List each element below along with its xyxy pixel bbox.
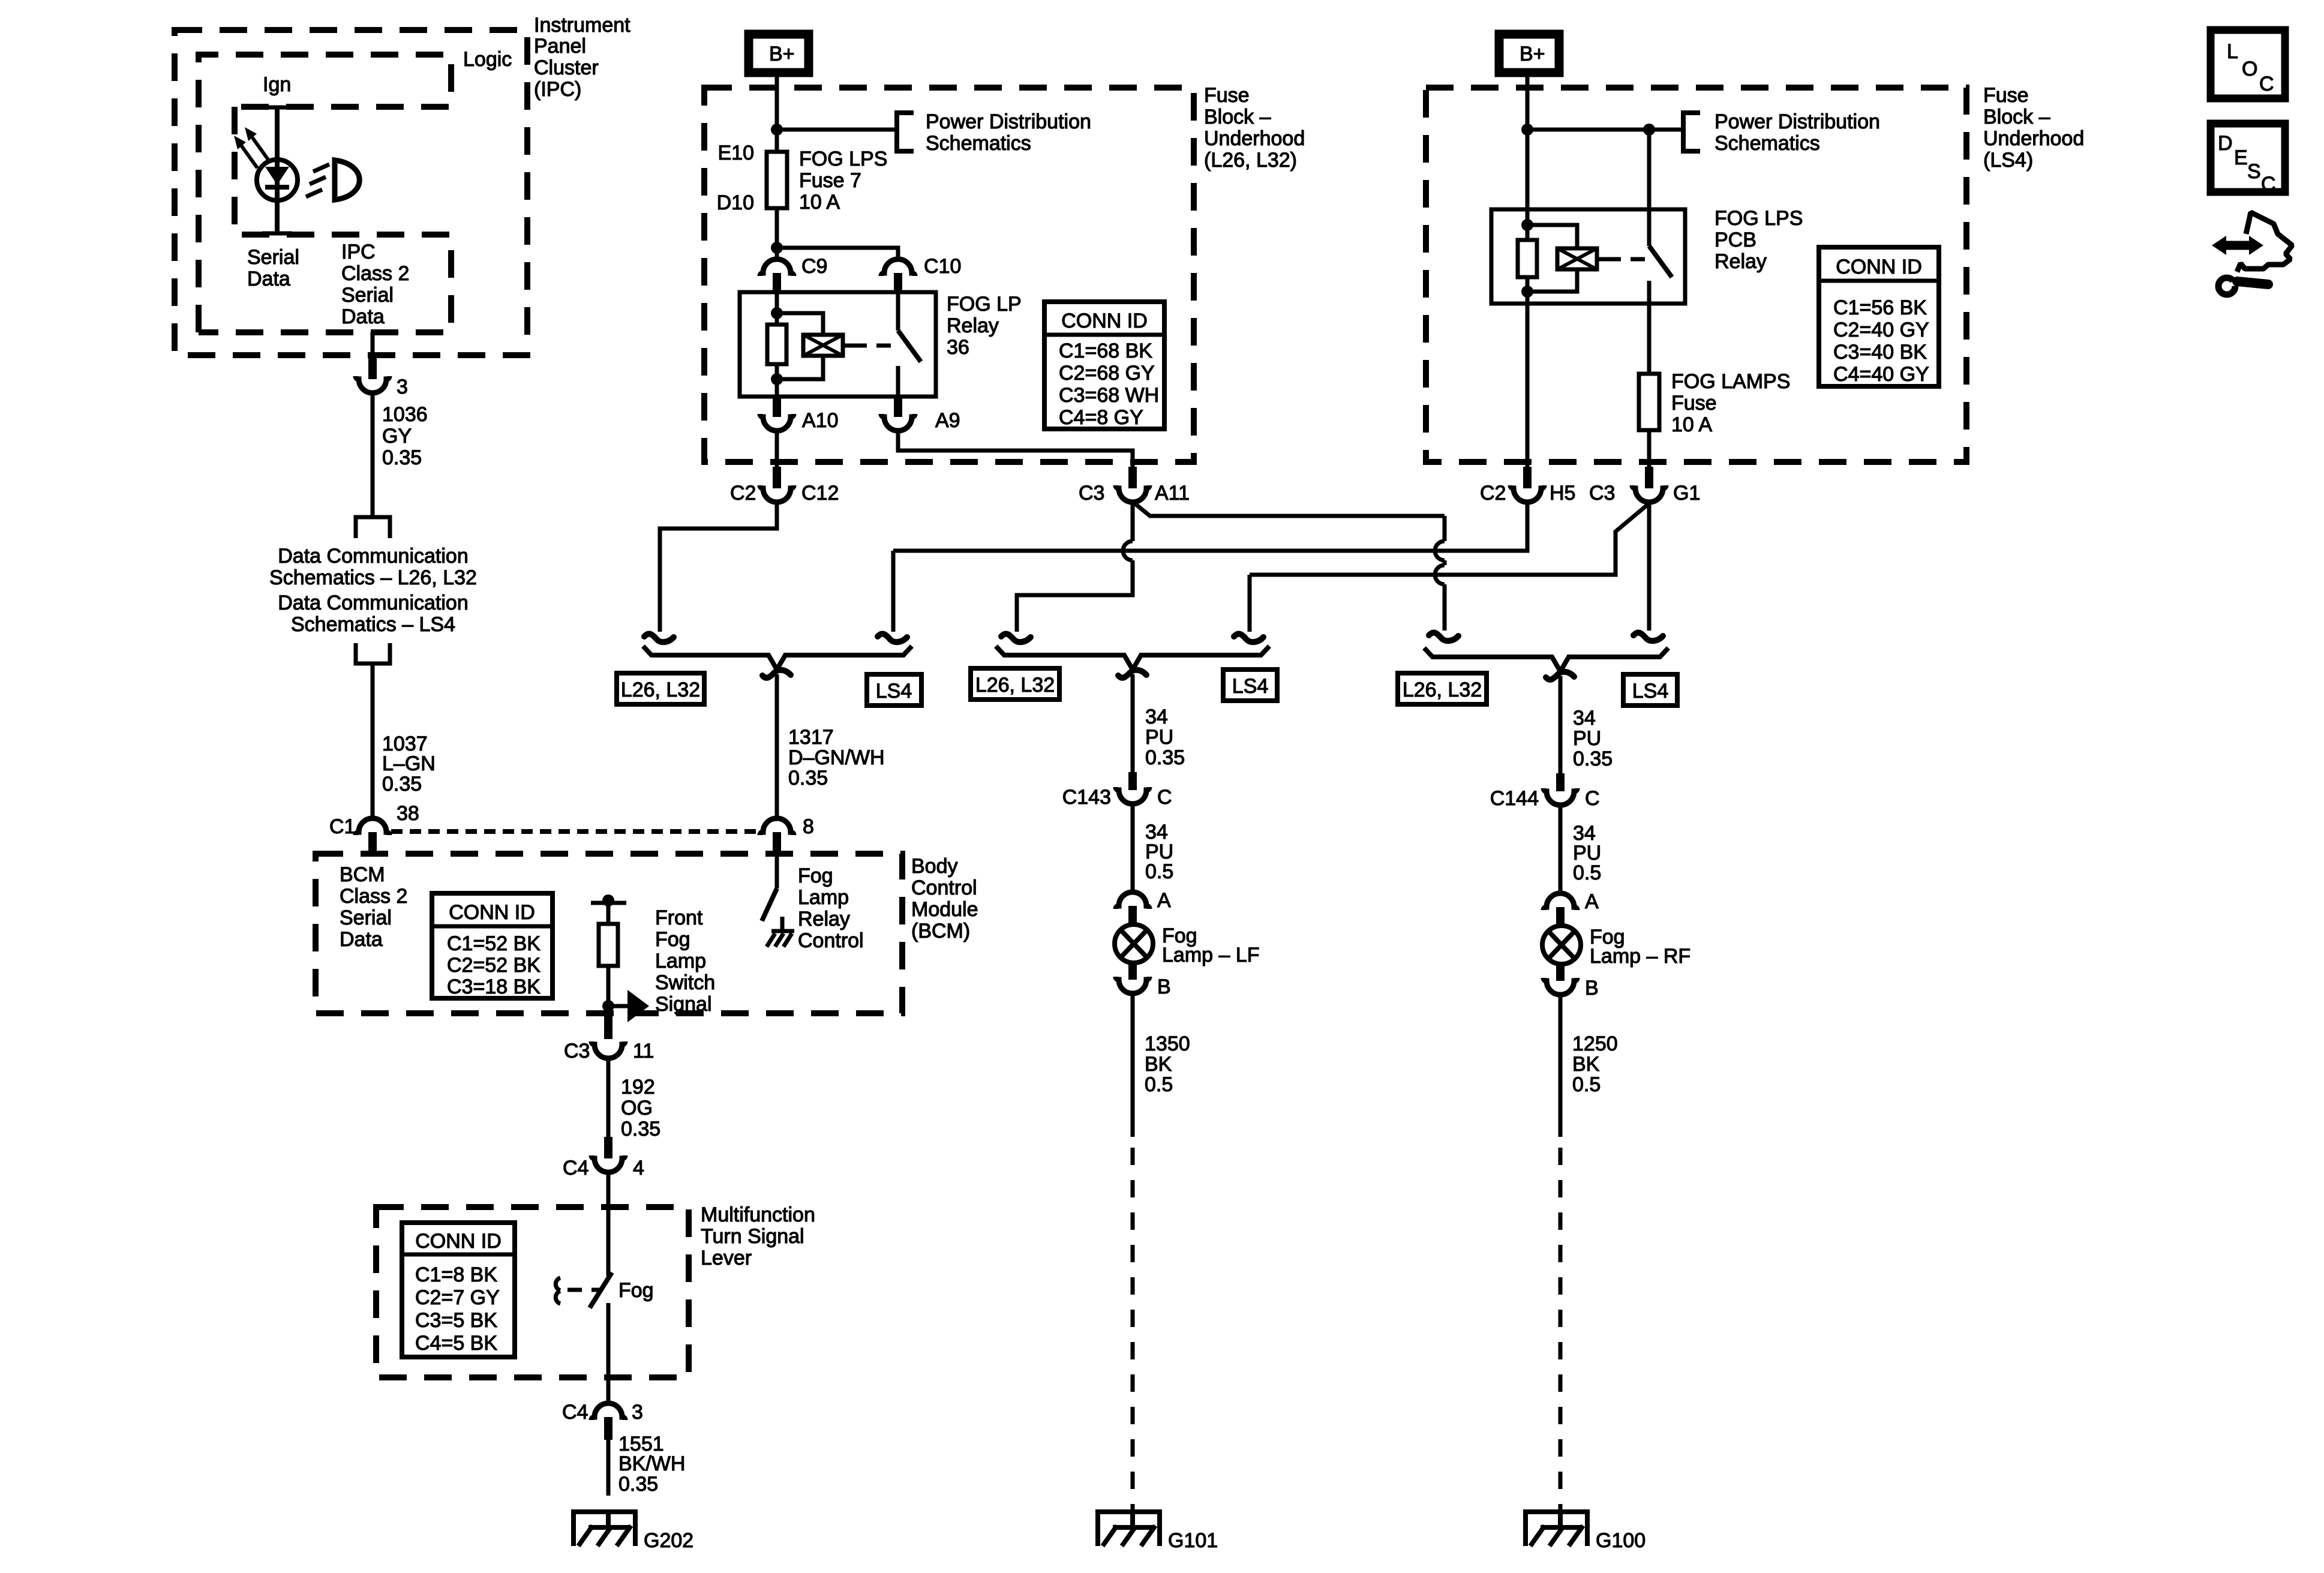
svg-text:G202: G202 — [644, 1529, 693, 1552]
svg-text:C9: C9 — [801, 255, 827, 278]
relay switch wire from power — [1647, 130, 1652, 246]
relay coil — [1557, 248, 1597, 269]
svg-text:GY: GY — [382, 425, 412, 448]
wire terminal at bottom of LED box — [262, 232, 292, 236]
svg-text:C2=52 BK: C2=52 BK — [447, 954, 541, 977]
svg-text:Underhood: Underhood — [1983, 127, 2084, 150]
svg-text:C12: C12 — [801, 482, 839, 505]
svg-text:BCM: BCM — [340, 863, 385, 886]
svg-text:(L26, L32): (L26, L32) — [1204, 149, 1297, 172]
tap wire to power distribution — [777, 128, 897, 132]
svg-text:Fog: Fog — [655, 928, 690, 951]
relay switch blade — [898, 331, 921, 362]
svg-text:C2: C2 — [1480, 482, 1506, 505]
wire B+ to fuse — [775, 71, 779, 152]
CONN ID table MTSL — [402, 1223, 515, 1357]
wire 1037 — [371, 664, 375, 819]
svg-text:C1=52 BK: C1=52 BK — [447, 932, 541, 955]
svg-text:Serial: Serial — [340, 906, 392, 929]
wire resistor down to H5 — [1526, 277, 1530, 470]
svg-text:Lamp – LF: Lamp – LF — [1162, 944, 1260, 966]
SEC-ICONS — [2211, 30, 2292, 295]
svg-text:C3: C3 — [1079, 482, 1104, 505]
connector dome pin 8 — [760, 818, 794, 835]
wire 34 PU brace 2 to C143 — [1131, 674, 1135, 775]
crossover hop — [1435, 565, 1445, 584]
svg-text:B: B — [1585, 977, 1599, 999]
LED light arrows — [251, 136, 268, 160]
wire 34 PU 0.5 — [1559, 805, 1563, 895]
svg-text:C4: C4 — [563, 1157, 588, 1179]
svg-text:Underhood: Underhood — [1204, 127, 1305, 150]
coil tail — [1597, 257, 1607, 262]
svg-text:LS4: LS4 — [1632, 680, 1669, 703]
FOG LPS PCB Relay box — [1491, 209, 1685, 304]
hook terminal — [878, 634, 907, 643]
wire C12 to brace 1 left — [660, 502, 777, 632]
SEC-FB1 — [704, 34, 1305, 505]
connector pin B — [1128, 962, 1137, 980]
wire down to brace 1 right hook — [891, 551, 896, 632]
svg-text:Panel: Panel — [534, 35, 586, 58]
engine label box L26 L32 — [1398, 673, 1487, 704]
svg-text:E: E — [2234, 146, 2248, 169]
svg-text:PU: PU — [1573, 727, 1601, 750]
svg-text:Signal: Signal — [655, 993, 712, 1016]
svg-text:Block –: Block – — [1204, 106, 1271, 128]
svg-text:BK: BK — [1145, 1053, 1172, 1076]
svg-text:Fuse: Fuse — [1204, 84, 1250, 107]
svg-text:LS4: LS4 — [876, 680, 912, 703]
svg-text:PCB: PCB — [1715, 229, 1756, 251]
connector pin A11 — [1128, 467, 1137, 488]
Ign wire terminal — [262, 106, 292, 110]
junction dot — [771, 307, 783, 319]
relay control contact — [780, 917, 785, 931]
fog switch contact — [556, 1278, 560, 1304]
connector pin A9 — [894, 397, 902, 417]
svg-text:Multifunction: Multifunction — [701, 1203, 815, 1226]
fog switch blade — [590, 1272, 612, 1308]
engine label box L26 L32 — [617, 673, 704, 704]
junction dot — [602, 1000, 614, 1012]
svg-text:C2: C2 — [730, 482, 756, 505]
serial data wire out of IPC — [371, 332, 375, 359]
junction dot — [602, 894, 614, 906]
svg-text:38: 38 — [397, 802, 419, 825]
wire Ign to LED — [275, 107, 280, 233]
svg-text:34: 34 — [1573, 707, 1596, 730]
relay coil branch wires — [777, 313, 823, 379]
B+ battery feed box right — [1499, 34, 1559, 73]
hook terminal — [644, 634, 674, 643]
connector dome A — [1116, 892, 1149, 909]
LS4 lamp feed wire G1 diagonal — [1250, 504, 1649, 575]
svg-text:C1: C1 — [329, 815, 355, 838]
IPC Class 2 inner dashed box — [199, 107, 451, 332]
wire below fog switch — [606, 1303, 611, 1404]
svg-text:C144: C144 — [1490, 787, 1539, 810]
wire 34 PU 0.5 — [1131, 804, 1135, 894]
wire 1551 — [606, 1440, 611, 1478]
connector cup A9 — [881, 414, 915, 431]
fuse FOG LAMPS — [1639, 374, 1659, 430]
CONN ID table BCM — [432, 893, 553, 998]
svg-text:Schematics: Schematics — [1715, 132, 1820, 155]
Fuse Block Underhood LS4 dashed box — [1426, 88, 1966, 462]
svg-text:3: 3 — [632, 1401, 643, 1424]
svg-text:C1=8 BK: C1=8 BK — [415, 1263, 497, 1286]
svg-text:Data: Data — [341, 305, 385, 328]
connector cup H5 — [1511, 485, 1544, 502]
A11 branch diagonal — [1134, 503, 1445, 516]
svg-text:L26, L32: L26, L32 — [1403, 679, 1482, 701]
svg-text:CONN ID: CONN ID — [1836, 256, 1922, 278]
svg-text:L–GN: L–GN — [382, 752, 436, 775]
svg-text:C4=5 BK: C4=5 BK — [415, 1332, 497, 1355]
signal arrow — [608, 1004, 629, 1008]
svg-text:1350: 1350 — [1145, 1032, 1190, 1055]
LOC button — [2211, 30, 2285, 98]
hook below brace 2 — [1118, 670, 1146, 678]
fog lamp switch signal stem terminal — [591, 901, 626, 905]
off-page break bracket lower — [356, 643, 390, 664]
svg-text:Data Communication: Data Communication — [278, 545, 468, 568]
svg-text:Lamp – RF: Lamp – RF — [1590, 945, 1691, 968]
fullsize-view icon wrench — [2218, 278, 2235, 295]
svg-text:C: C — [1157, 786, 1172, 809]
wire fuse to G1 — [1647, 430, 1652, 470]
relay coil branch wires — [1527, 225, 1577, 292]
svg-text:B: B — [1157, 975, 1171, 998]
connector cup A10 — [760, 414, 794, 431]
svg-text:1250: 1250 — [1572, 1032, 1618, 1055]
svg-text:Class 2: Class 2 — [340, 885, 407, 908]
svg-text:Serial: Serial — [247, 246, 299, 269]
svg-text:Schematics – LS4: Schematics – LS4 — [291, 613, 455, 636]
svg-text:C4: C4 — [562, 1401, 588, 1424]
fullsize-view icon double arrow — [2212, 212, 2292, 295]
svg-text:1317: 1317 — [788, 726, 834, 749]
coil tail — [843, 344, 852, 348]
svg-text:0.5: 0.5 — [1145, 860, 1173, 883]
Multifunction Turn Signal Lever dashed box — [376, 1207, 689, 1377]
wire A9 to A11 — [898, 431, 1133, 469]
Body Control Module dashed box — [316, 854, 902, 1013]
connector cup C12 — [760, 485, 794, 502]
svg-text:10 A: 10 A — [799, 191, 840, 214]
switch signal resistor — [599, 924, 618, 966]
wire B+ down — [1526, 71, 1530, 240]
internal ground symbol — [771, 929, 794, 933]
svg-text:34: 34 — [1145, 706, 1168, 728]
relay switch blade — [1649, 246, 1672, 277]
SEC-MIDWEB — [617, 502, 1677, 855]
svg-text:0.35: 0.35 — [788, 767, 828, 789]
svg-text:D10: D10 — [717, 191, 754, 214]
fog switch dashed link — [568, 1288, 601, 1292]
connector pin C12 — [773, 467, 781, 488]
svg-text:C3: C3 — [564, 1040, 590, 1062]
mechanical link dashed — [852, 344, 895, 348]
engine label box LS4 — [1223, 670, 1277, 701]
svg-text:C: C — [1585, 787, 1600, 810]
svg-text:(LS4): (LS4) — [1983, 149, 2033, 172]
svg-text:PU: PU — [1145, 726, 1173, 749]
svg-text:Lever: Lever — [701, 1247, 752, 1269]
svg-text:Control: Control — [911, 876, 977, 899]
ground G202 — [571, 1512, 638, 1546]
relay resistor — [767, 325, 786, 364]
fog lamp relay control wire from pin 8 — [775, 855, 779, 888]
wire into turn signal lever — [606, 1173, 611, 1276]
connector dome C1 — [356, 818, 389, 835]
svg-text:3: 3 — [397, 376, 408, 398]
SEC-LEFTCHAIN — [269, 393, 759, 855]
Fog Lamp LF bulb — [1115, 924, 1153, 963]
svg-text:10 A: 10 A — [1671, 413, 1712, 436]
svg-text:Block –: Block – — [1983, 106, 2050, 128]
connector pin C10 — [894, 273, 902, 293]
fuse FOG LPS Fuse 7 — [767, 152, 787, 208]
svg-text:Data: Data — [340, 928, 383, 951]
connector dome C9 — [760, 259, 794, 276]
svg-text:0.35: 0.35 — [382, 446, 422, 469]
connector cup C144 — [1544, 788, 1577, 805]
svg-text:0.5: 0.5 — [1573, 861, 1601, 884]
svg-text:Control: Control — [798, 929, 864, 952]
svg-text:C143: C143 — [1062, 786, 1111, 809]
relay resistor — [1518, 240, 1537, 277]
class 2 serial data dotted bus C1 to pin 8 — [391, 829, 759, 834]
fullsize-view icon outline shape — [2237, 212, 2292, 272]
svg-text:FOG LAMPS: FOG LAMPS — [1671, 370, 1790, 393]
wire fuse to C9 — [775, 208, 779, 260]
svg-text:C1=56 BK: C1=56 BK — [1833, 296, 1927, 319]
dashed wire to ground — [1559, 1148, 1563, 1512]
svg-text:4: 4 — [633, 1157, 644, 1179]
svg-text:0.5: 0.5 — [1145, 1073, 1173, 1096]
svg-text:A9: A9 — [935, 409, 960, 432]
svg-text:FOG LPS: FOG LPS — [1715, 207, 1803, 230]
power distribution bracket — [1683, 113, 1700, 151]
LED indicator circle — [257, 160, 298, 200]
svg-text:0.5: 0.5 — [1572, 1073, 1601, 1096]
svg-text:Fuse: Fuse — [1983, 84, 2029, 107]
svg-text:C4=8 GY: C4=8 GY — [1059, 406, 1143, 429]
connector pin 8 — [773, 832, 781, 855]
svg-text:A10: A10 — [802, 409, 839, 432]
wire resistor to bottom — [775, 364, 779, 397]
relay switch lower wire — [1647, 281, 1652, 374]
svg-text:Module: Module — [911, 898, 978, 921]
svg-text:C1=68 BK: C1=68 BK — [1059, 340, 1152, 362]
svg-text:D–GN/WH: D–GN/WH — [788, 746, 885, 769]
connector pin C4/3 — [604, 1417, 612, 1440]
junction dot switch feed — [1643, 124, 1655, 136]
svg-text:B+: B+ — [1520, 43, 1545, 65]
svg-text:Cluster: Cluster — [534, 56, 599, 79]
dashed wire to ground — [606, 1478, 611, 1512]
junction dot — [771, 124, 783, 136]
svg-text:Relay: Relay — [798, 908, 850, 930]
svg-text:Data Communication: Data Communication — [278, 592, 468, 614]
svg-text:Fuse: Fuse — [1671, 392, 1717, 415]
brace 2 — [996, 646, 1269, 670]
svg-text:C3=40 BK: C3=40 BK — [1833, 341, 1927, 364]
svg-text:D: D — [2218, 132, 2233, 155]
svg-text:C3=18 BK: C3=18 BK — [447, 975, 541, 998]
power distribution bracket — [897, 113, 914, 151]
dashed wire to ground — [1131, 1148, 1135, 1512]
connector cup B — [1544, 978, 1577, 995]
svg-text:B+: B+ — [769, 43, 795, 65]
hook terminal — [1634, 633, 1663, 641]
connector cup G1 — [1632, 485, 1666, 502]
hook below brace 1 — [762, 670, 791, 678]
connector cup C3/11 — [591, 1041, 625, 1058]
ground G101 — [1095, 1512, 1162, 1546]
svg-text:L26, L32: L26, L32 — [975, 674, 1055, 697]
connector pin H5 — [1523, 467, 1532, 488]
svg-text:Relay: Relay — [947, 314, 999, 337]
off-page break bracket upper — [356, 517, 390, 538]
junction dot coil top — [1521, 219, 1533, 231]
brace 3 — [1424, 648, 1668, 671]
svg-text:IPC: IPC — [341, 241, 376, 263]
connector cup C143 — [1116, 787, 1149, 804]
svg-text:C3: C3 — [1589, 482, 1615, 505]
svg-text:0.35: 0.35 — [621, 1118, 660, 1140]
hook terminal — [1234, 634, 1263, 643]
svg-text:Fog: Fog — [618, 1279, 654, 1302]
svg-text:Class 2: Class 2 — [341, 262, 409, 285]
Instrument Panel Cluster outer dashed box — [175, 30, 527, 355]
connector pin (IPC 3) — [368, 358, 377, 379]
svg-text:Logic: Logic — [463, 48, 512, 71]
engine label box L26 L32 — [971, 668, 1059, 700]
connector pin C144 — [1556, 773, 1565, 791]
connector cup B — [1116, 977, 1149, 993]
svg-text:E10: E10 — [718, 142, 755, 164]
svg-text:C3=68 WH: C3=68 WH — [1059, 384, 1159, 407]
svg-text:Lamp: Lamp — [655, 950, 706, 972]
relay coil — [803, 335, 843, 356]
svg-text:G1: G1 — [1673, 482, 1700, 505]
svg-text:C: C — [2261, 173, 2276, 196]
svg-text:C4=40 GY: C4=40 GY — [1833, 363, 1929, 386]
connector pin C9 — [773, 273, 781, 293]
wire 1036 — [371, 393, 375, 517]
switch signal pin out — [604, 1016, 612, 1039]
svg-text:0.35: 0.35 — [618, 1473, 658, 1496]
CONN ID table fuse block 1 — [1044, 302, 1164, 429]
svg-text:O: O — [2242, 58, 2257, 80]
wire G1 straight down to brace 3 right — [1647, 502, 1652, 631]
CONN ID table fuse block 2 — [1819, 247, 1939, 386]
svg-text:G100: G100 — [1596, 1529, 1646, 1552]
svg-text:CONN ID: CONN ID — [415, 1230, 502, 1253]
stem wire lower — [606, 966, 611, 1016]
svg-text:0.35: 0.35 — [382, 773, 422, 795]
SEC-LAMPRF — [1490, 676, 1691, 1552]
engine label box LS4 — [1623, 674, 1677, 706]
svg-text:A: A — [1157, 889, 1171, 912]
junction dot — [1521, 124, 1533, 136]
wire 192 — [606, 1058, 611, 1139]
wire A10 to C12 — [775, 431, 779, 469]
svg-text:A: A — [1585, 890, 1599, 913]
mechanical link dashed — [1607, 257, 1646, 262]
svg-text:192: 192 — [621, 1076, 655, 1098]
svg-text:Schematics: Schematics — [926, 132, 1031, 155]
wire to C10 branch — [777, 248, 898, 260]
wire 1317 brace 1 to BCM pin 8 — [775, 674, 779, 819]
svg-text:Fog: Fog — [798, 864, 833, 887]
Fuse Block Underhood L26 L32 dashed box — [704, 88, 1194, 462]
svg-text:C2=68 GY: C2=68 GY — [1059, 362, 1155, 385]
B+ battery feed box — [749, 34, 809, 73]
svg-text:Lamp: Lamp — [798, 886, 849, 909]
relay control switch blade — [762, 888, 777, 921]
SEC-IPC — [175, 14, 630, 398]
relay switch lower wire — [896, 366, 900, 397]
connector dome C4/3 — [591, 1403, 625, 1420]
svg-text:FOG LPS: FOG LPS — [799, 148, 887, 170]
connector dome A — [1544, 893, 1577, 910]
svg-text:Relay: Relay — [1715, 250, 1767, 273]
svg-text:0.35: 0.35 — [1145, 746, 1185, 769]
connector pin G1 — [1645, 467, 1653, 488]
svg-text:LS4: LS4 — [1232, 675, 1269, 698]
svg-text:S: S — [2247, 160, 2261, 183]
svg-text:OG: OG — [621, 1097, 653, 1119]
svg-text:C10: C10 — [924, 255, 961, 278]
svg-text:Schematics – L26, L32: Schematics – L26, L32 — [269, 566, 477, 589]
svg-text:Turn Signal: Turn Signal — [701, 1225, 804, 1248]
svg-text:BK: BK — [1572, 1053, 1600, 1076]
brace 1 — [643, 646, 912, 670]
LED diode triangle — [265, 167, 289, 185]
ground G100 — [1523, 1512, 1590, 1546]
svg-text:L26, L32: L26, L32 — [621, 679, 700, 701]
FOG LP Relay box — [740, 292, 936, 397]
svg-text:Fuse 7: Fuse 7 — [799, 169, 861, 192]
svg-text:G101: G101 — [1168, 1529, 1218, 1552]
vertical from A11 horizontal down to brace 3 left with two hops — [1443, 516, 1447, 631]
hook terminal — [1001, 634, 1031, 643]
LED cathode bar — [265, 185, 289, 190]
wire down to brace 2 right hook — [1248, 575, 1252, 632]
connector pin B — [1556, 963, 1565, 981]
svg-text:A11: A11 — [1155, 482, 1190, 505]
Logic dashed box — [199, 55, 451, 332]
wire 1250 BK — [1559, 995, 1563, 1137]
svg-text:Instrument: Instrument — [534, 14, 630, 37]
svg-text:(IPC): (IPC) — [534, 78, 581, 101]
svg-text:(BCM): (BCM) — [911, 920, 970, 942]
svg-text:H5: H5 — [1550, 482, 1575, 505]
svg-text:1036: 1036 — [382, 403, 428, 426]
svg-text:36: 36 — [947, 336, 969, 359]
relay control crossover wire H5 to brace 1 right — [893, 502, 1527, 551]
connector cup 3 — [356, 376, 389, 393]
connector pin A10 — [773, 397, 781, 417]
svg-text:Power Distribution: Power Distribution — [1715, 110, 1880, 133]
relay coil feed wire — [775, 293, 779, 325]
connector pin A — [1556, 907, 1565, 926]
junction dot coil bottom — [1521, 286, 1533, 298]
